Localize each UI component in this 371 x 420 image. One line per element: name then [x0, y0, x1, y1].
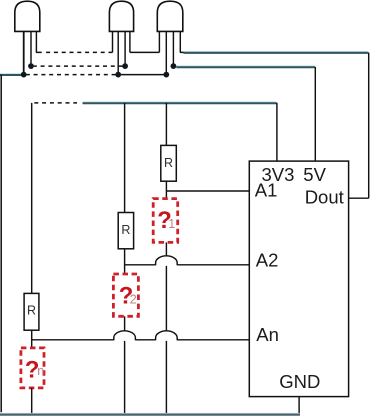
wire left edge vertical: [0, 75, 2, 413]
wire chain A bottom vertical: [124, 341, 126, 414]
junction dot LED D3 leg2: [163, 72, 169, 78]
LED D2 leg 1: [112, 31, 114, 52]
wire A2 pin left segment: [125, 264, 156, 266]
LED D3 body: [157, 1, 183, 31]
svg-text:5V: 5V: [303, 164, 326, 185]
LED D1 right leg: [36, 31, 41, 52]
junction dot LED D1 leg1: [21, 72, 27, 78]
svg-text:An: An: [256, 324, 279, 345]
svg-text:1: 1: [168, 217, 175, 231]
dashed wire row y74 (ground-side net continuation): [27, 74, 116, 76]
svg-text:Dout: Dout: [305, 187, 344, 208]
wire chain A below ?2: [124, 316, 126, 331]
wire An pin right segment: [177, 339, 249, 341]
unknown component ?n box: [21, 348, 44, 388]
junction dot LED D1 leg2: [28, 63, 34, 69]
junction dot LED D2 leg2: [115, 72, 121, 78]
wire LED D2 leg2 to LED D3 leg2: [118, 74, 166, 76]
wire An pin middle segment: [135, 339, 155, 341]
LED D1 body: [15, 1, 40, 31]
LED D2 leg 4: [129, 31, 131, 52]
crossover bump chain A over An wire: [114, 331, 136, 340]
resistor R (chain A): [118, 213, 133, 249]
svg-text:R: R: [121, 223, 130, 237]
svg-text:A2: A2: [256, 249, 279, 270]
svg-text:R: R: [164, 156, 173, 170]
svg-text:A1: A1: [255, 179, 278, 200]
unknown component ?2 box: [113, 274, 138, 316]
wire chain B mid vertical: [165, 181, 167, 198]
wire An pin left segment: [32, 339, 114, 341]
svg-text:R: R: [27, 304, 36, 318]
wire chain B below ?1: [165, 242, 167, 256]
resistor R (chain C): [24, 293, 39, 330]
wire 5V riser: [314, 67, 316, 161]
wire 3V3 riser: [276, 103, 278, 161]
wire chain B top vertical: [165, 103, 167, 145]
IC U1 controller box: [249, 161, 348, 397]
ground rail wire bottom: [0, 413, 300, 414]
unknown component ?1 box: [153, 199, 178, 243]
LED D2 leg 2: [117, 31, 119, 74]
dashed wire row y103 (3V3 net continuation): [34, 102, 77, 104]
LED D2 body: [109, 1, 133, 31]
teal wire Dout net y52: [184, 52, 369, 53]
wire LED D2 leg4 to LED D3 leg1: [130, 51, 160, 53]
svg-text:GND: GND: [279, 371, 320, 392]
wire chain A mid vertical: [124, 249, 126, 274]
teal wire 3V3 net y103: [83, 102, 277, 103]
crossover bump chain B over A2 wire: [156, 256, 178, 265]
LED D1 middle leg: [30, 31, 32, 66]
wire chain C top vertical: [31, 103, 33, 294]
wire GND stub: [298, 397, 300, 415]
LED D3 leg 4: [180, 31, 184, 52]
wire A2 pin right segment: [177, 264, 249, 266]
teal wire 5V net y67: [176, 66, 315, 67]
dashed wire row y52 (data chain continuation): [43, 51, 113, 53]
resistor R (chain B): [161, 145, 177, 181]
wire Dout riser: [368, 53, 370, 199]
LED D3 leg 3: [172, 31, 174, 66]
junction dot LED D2 leg3: [122, 63, 128, 69]
junction dot LED D3 leg3: [171, 63, 177, 69]
svg-text:2: 2: [130, 293, 137, 307]
crossover bump chain B over An wire: [156, 331, 178, 340]
wire chain C bottom vertical: [31, 388, 33, 414]
dashed wire row y66 (5V net continuation): [34, 65, 123, 67]
teal wire left stub y74: [0, 74, 22, 75]
LED D3 leg 2: [165, 31, 167, 74]
wire chain A top vertical: [124, 103, 126, 213]
wire Dout pin stub: [349, 197, 369, 199]
wire chain B bottom vertical: [165, 341, 167, 414]
LED D3 leg 1: [158, 31, 160, 52]
svg-text:n: n: [37, 364, 44, 378]
LED D1 cathode leg: [23, 31, 25, 74]
wire chain C mid vertical: [31, 330, 33, 348]
LED D2 leg 3: [124, 31, 126, 66]
wire chain B between A2 and An: [165, 266, 167, 331]
wire A1 pin: [166, 190, 249, 192]
